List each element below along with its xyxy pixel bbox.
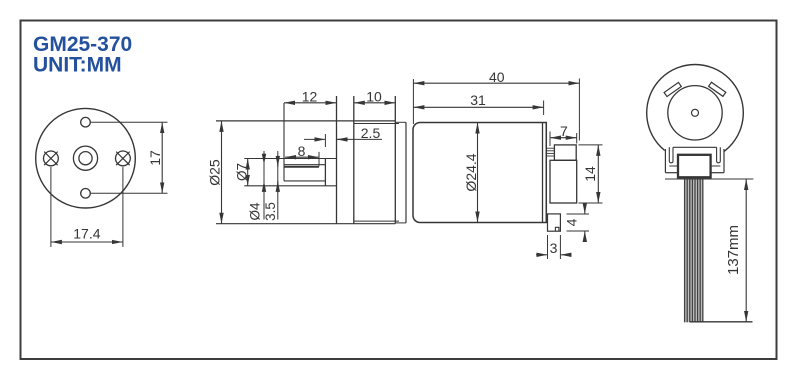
shaft flat line	[284, 166, 319, 168]
dimension 7 line with arrows	[550, 137, 577, 139]
gearbox-motor interface section	[395, 122, 406, 223]
boss dia7 top line	[244, 158, 336, 160]
svg-text:3: 3	[550, 240, 558, 256]
svg-text:40: 40	[489, 69, 505, 85]
dimension 17 label	[147, 150, 163, 166]
rear center shaft dot	[692, 109, 699, 116]
left screw hole cross	[44, 152, 58, 166]
dimension dia25 label	[207, 159, 223, 186]
dimension 2.5 tail line	[337, 138, 383, 140]
motor body outline	[413, 123, 546, 223]
right vent slot	[709, 82, 726, 96]
output hub outer circle	[73, 146, 97, 170]
connector housing	[665, 147, 724, 172]
brush housing upper box	[554, 145, 576, 160]
right screw hole cross	[116, 152, 130, 166]
ribbon cable	[684, 179, 704, 323]
shaft tip edge and dim12 extension	[283, 103, 285, 181]
left vent slot	[664, 82, 681, 96]
solder terminal box	[548, 214, 561, 231]
svg-text:UNIT:MM: UNIT:MM	[33, 54, 122, 77]
dimension 14 label	[582, 166, 598, 182]
gearbox mid seam line	[353, 96, 355, 224]
gearbox top outline and dia25 extension	[216, 120, 395, 122]
dimension 137mm top extension	[665, 178, 753, 180]
left screw hole circle	[44, 151, 59, 166]
dimension dia25 line with arrows	[221, 121, 223, 224]
dimension 7 extensions	[550, 132, 577, 147]
right screw hole circle	[116, 151, 131, 166]
dimension 31 line with arrows	[413, 106, 543, 108]
gearbox inner lip bottom	[354, 220, 399, 222]
title text UNIT:MM	[33, 54, 122, 77]
flange outer circle	[36, 108, 136, 208]
dimension 10 label	[366, 89, 382, 105]
svg-text:3.5: 3.5	[263, 202, 278, 221]
svg-text:10: 10	[366, 89, 382, 105]
dimension 3 label	[550, 240, 558, 256]
svg-text:Ø4: Ø4	[247, 202, 262, 221]
dimension 14 extensions	[579, 145, 603, 203]
bottom mounting hole	[81, 189, 91, 199]
shaft top line	[284, 164, 325, 166]
dimension 4 label	[563, 218, 579, 226]
rear inner circle	[668, 86, 722, 140]
shaft bottom line	[284, 180, 325, 182]
dimension dia4 label	[247, 202, 262, 221]
dimension 31 right extension	[543, 101, 545, 116]
dimension 2.5 arrows	[304, 138, 348, 140]
dimension dia7 line with arrows	[247, 159, 249, 186]
dimension 8 label	[298, 143, 306, 159]
svg-text:12: 12	[302, 89, 318, 105]
brush housing lower box	[550, 160, 577, 203]
dimension dia4 arrows	[263, 153, 265, 193]
dimension 3 extensions	[548, 235, 561, 259]
connector housing mask	[665, 146, 725, 178]
dimension 17.4 line with arrows	[51, 241, 123, 243]
svg-text:17: 17	[147, 150, 163, 166]
dimension 137mm line with arrows	[745, 179, 747, 322]
dimension 8 line with arrows	[285, 156, 319, 158]
svg-text:7: 7	[560, 123, 568, 139]
dimension 4 extensions	[567, 214, 590, 231]
dimension 3.5 arrows	[277, 155, 279, 193]
boss front edge	[324, 159, 326, 186]
dimension 14 line with arrows	[597, 145, 599, 203]
svg-text:137mm: 137mm	[725, 225, 742, 275]
dimension 4 arrows	[584, 204, 586, 242]
dimension 40 line with arrows	[413, 82, 579, 84]
dimension dia7 label	[234, 163, 249, 181]
dimension 40 label	[489, 69, 505, 85]
svg-text:8: 8	[298, 143, 306, 159]
dimension dia24.4 label	[463, 153, 479, 191]
gearbox rear edge line	[394, 96, 396, 224]
dimension 10 line with arrows	[354, 102, 396, 104]
svg-text:14: 14	[582, 166, 598, 182]
motor can right edge	[542, 123, 544, 223]
rear endcap outer circle	[647, 65, 744, 162]
dimension 40 right extension	[578, 79, 580, 141]
gearbox inner lip top	[354, 123, 399, 125]
dimension 17 line with arrows	[161, 122, 163, 193]
gearbox front face line	[336, 96, 338, 224]
dimension 31 label	[470, 92, 486, 108]
dimension 8 extension line	[318, 152, 320, 167]
svg-text:Ø24.4: Ø24.4	[463, 153, 479, 191]
dimension 3 arrows	[536, 254, 572, 256]
svg-text:17.4: 17.4	[73, 226, 100, 242]
solder terminal notch	[555, 227, 559, 231]
svg-text:Ø7: Ø7	[234, 163, 249, 181]
dimension 2.5 label	[361, 125, 381, 141]
connector body box	[678, 155, 711, 178]
output shaft inner circle	[79, 152, 92, 165]
svg-text:2.5: 2.5	[361, 125, 381, 141]
svg-text:31: 31	[470, 92, 486, 108]
dimension 3.5 label	[263, 202, 278, 221]
dimension 3.5 line	[277, 151, 279, 220]
svg-text:4: 4	[563, 218, 579, 226]
dimension 137mm bottom extension	[690, 321, 753, 323]
dimension 137mm label	[725, 225, 742, 275]
dimension 12 label	[302, 89, 318, 105]
dimension 17 extension lines	[91, 122, 168, 193]
dimension 2.5 extension tick	[324, 134, 326, 147]
dimension 17.4 extension lines	[51, 167, 123, 247]
svg-text:Ø25: Ø25	[207, 159, 223, 186]
dimension 40 31 left extension	[412, 79, 414, 124]
boss dia7 bottom line	[244, 185, 336, 187]
title text GM25-370	[33, 33, 132, 56]
dimension dia4 line	[263, 151, 265, 220]
dimension 12 line with arrows	[284, 102, 337, 104]
dimension dia24.4 line with arrows	[477, 123, 479, 223]
gearbox bottom outline and dia25 extension	[216, 223, 395, 225]
dimension 7 label	[560, 123, 568, 139]
brush terminal pins	[546, 148, 554, 156]
top mounting hole	[81, 117, 91, 127]
dimension 17.4 label	[73, 226, 100, 242]
motor endcap line	[545, 123, 547, 223]
